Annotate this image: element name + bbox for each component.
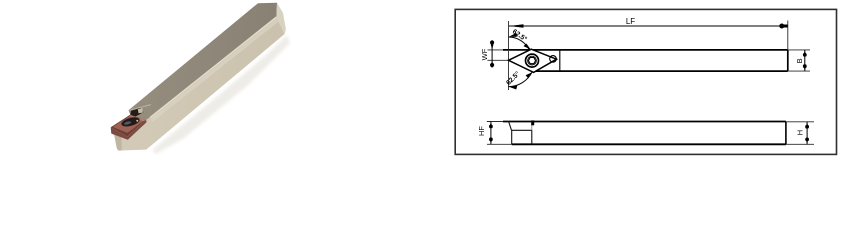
screw hole rim bbox=[120, 115, 141, 128]
bar end face bbox=[277, 3, 286, 34]
side bottom edge bbox=[512, 143, 786, 145]
pocket light notch bbox=[138, 108, 143, 113]
hex socket bbox=[528, 57, 535, 63]
right vertical extension (to LF line) bbox=[787, 21, 789, 50]
insert top face bbox=[113, 116, 145, 133]
insert bevel highlight bbox=[130, 115, 146, 121]
svg-text:LF: LF bbox=[626, 17, 635, 26]
dimension B bbox=[804, 50, 806, 71]
head front lower vertical bbox=[511, 130, 513, 144]
bar front side face bbox=[111, 17, 285, 151]
dimension LF bbox=[509, 25, 788, 27]
screw inner circle bbox=[528, 56, 537, 65]
HF top extension bbox=[487, 121, 509, 123]
screw hole bbox=[121, 116, 141, 128]
left vertical extension through insert tip bbox=[508, 21, 510, 90]
insert dark border rhombus bbox=[111, 115, 147, 137]
pocket shelf bbox=[512, 129, 532, 131]
svg-text:H: H bbox=[796, 130, 805, 135]
svg-text:HF: HF bbox=[477, 126, 486, 136]
dimension HF bbox=[490, 122, 492, 145]
dimension WF bbox=[491, 40, 493, 67]
top edge highlight along E2 bbox=[152, 20, 278, 120]
svg-text:WF: WF bbox=[480, 48, 489, 60]
B bottom extension bbox=[788, 70, 810, 72]
pocket end vertical lower bbox=[531, 130, 533, 144]
shank right end bbox=[787, 50, 789, 71]
screw interior sheen bbox=[124, 121, 132, 126]
border frame bbox=[455, 9, 836, 154]
insert side face band bbox=[111, 120, 147, 140]
head front slant bbox=[509, 122, 512, 131]
WF top extension line bbox=[488, 49, 509, 51]
WF bottom extension from tip bbox=[487, 59, 508, 61]
lower angle arc 62.5 bbox=[509, 72, 533, 87]
screw outer circle bbox=[526, 54, 539, 67]
B top extension bbox=[788, 49, 810, 51]
side top edge bbox=[503, 121, 786, 123]
head top face edge line bbox=[130, 105, 152, 111]
dimension H bbox=[806, 122, 808, 145]
3D tool holder photo (left) bbox=[111, 3, 290, 154]
pocket end vertical upper (faint) bbox=[531, 122, 533, 131]
shank bottom edge bbox=[536, 70, 788, 72]
H bottom extension bbox=[786, 143, 814, 145]
side right end bbox=[785, 122, 787, 145]
technical drawing (right) bbox=[455, 9, 836, 154]
insert end block bbox=[531, 120, 534, 125]
svg-text:B: B bbox=[795, 58, 804, 63]
upper angle arc 62.5 bbox=[509, 37, 530, 50]
HF bottom extension bbox=[487, 143, 512, 145]
insert diamond top view bbox=[509, 49, 557, 72]
insert pocket dark wedge bbox=[130, 108, 143, 117]
svg-text:62.5°: 62.5° bbox=[511, 28, 529, 44]
shank top edge bbox=[503, 49, 788, 51]
H top extension bbox=[786, 121, 814, 123]
screw glint right bbox=[136, 120, 138, 122]
insert nose circle bbox=[550, 56, 557, 63]
pocket end line bbox=[559, 50, 561, 71]
head left darker facet bbox=[114, 133, 122, 151]
bar top taupe face bbox=[129, 3, 278, 120]
shadow under bar bbox=[152, 35, 290, 154]
